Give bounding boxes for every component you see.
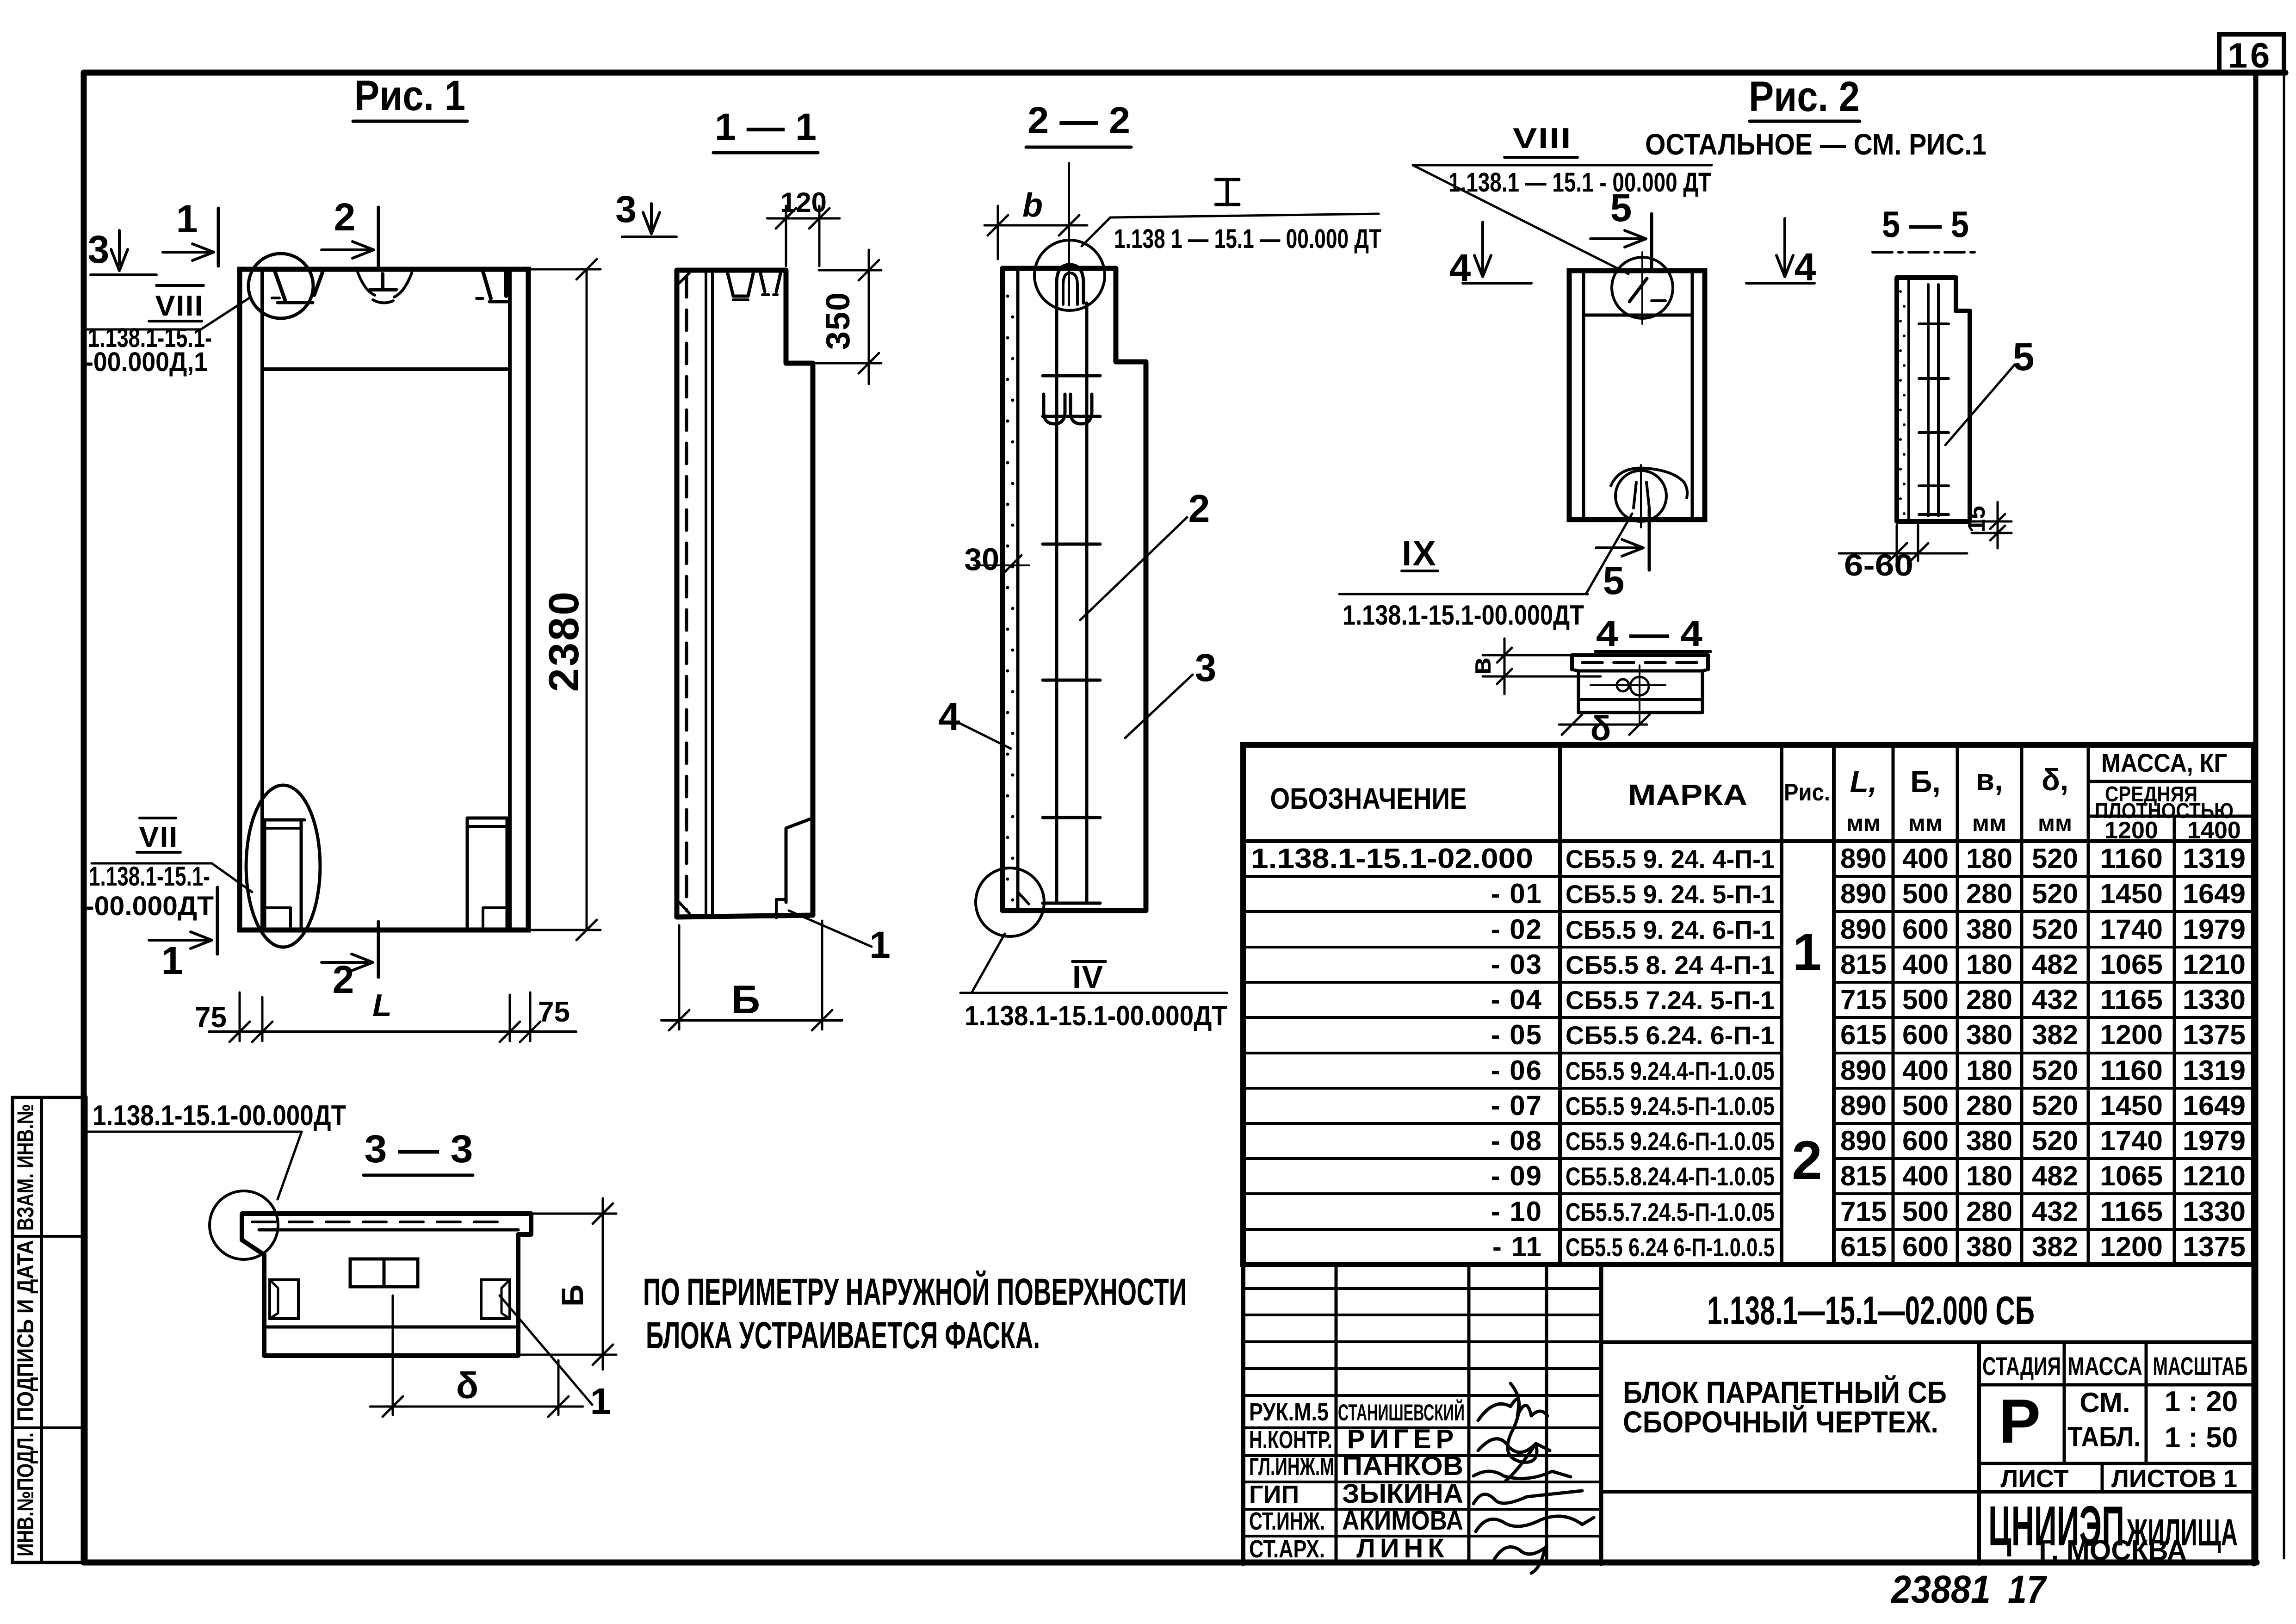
svg-text:1: 1 (176, 197, 198, 241)
Рис.1 bottom-left pocket (263, 820, 266, 929)
svg-text:ЛИСТОВ 1: ЛИСТОВ 1 (2111, 1465, 2237, 1493)
5-5 rebar (1927, 285, 1930, 516)
svg-text:L,: L, (1850, 764, 1877, 799)
Рис.1 main view outline (240, 269, 528, 930)
svg-text:Рис. 1: Рис. 1 (354, 72, 465, 119)
svg-text:520: 520 (2032, 914, 2078, 945)
svg-text:432: 432 (2032, 984, 2078, 1015)
svg-text:3 — 3: 3 — 3 (365, 1127, 473, 1171)
section 4-4 top slab (1572, 655, 1708, 669)
svg-text:1 — 1: 1 — 1 (715, 106, 817, 148)
svg-text:СБОРОЧНЫЙ ЧЕРТЕЖ.: СБОРОЧНЫЙ ЧЕРТЕЖ. (1623, 1404, 1938, 1439)
svg-text:СБ5.5 9.24.6-П-1.0.05: СБ5.5 9.24.6-П-1.0.05 (1566, 1127, 1775, 1156)
leader VII (92, 862, 212, 865)
section 3-3 outline (242, 1214, 531, 1356)
svg-text:350: 350 (820, 291, 857, 350)
svg-text:1450: 1450 (2100, 878, 2163, 909)
svg-text:482: 482 (2032, 1160, 2078, 1191)
1-1 top slots (727, 272, 754, 296)
svg-text:15: 15 (1963, 506, 1990, 533)
2-2 rebar (1055, 303, 1058, 903)
leader VIII (85, 329, 201, 331)
svg-text:432: 432 (2032, 1196, 2078, 1227)
2-2 U-hooks (1044, 394, 1065, 424)
Рис.1 top-right slot (483, 272, 491, 298)
dimension 15 (1972, 521, 2011, 523)
svg-text:1979: 1979 (2183, 914, 2246, 945)
svg-text:ИНВ.№ПОДЛ.: ИНВ.№ПОДЛ. (12, 1432, 38, 1556)
svg-text:- 05: - 05 (1491, 1019, 1542, 1050)
svg-text:- 11: - 11 (1492, 1231, 1542, 1262)
svg-text:17: 17 (2008, 1568, 2047, 1611)
svg-text:600: 600 (1902, 1231, 1949, 1262)
svg-text:1740: 1740 (2100, 1125, 2163, 1156)
dimension 350 (819, 269, 881, 272)
Рис.1 inner vertical left (260, 269, 264, 930)
sheet number box 16 (2219, 34, 2284, 73)
5-5 crossbar y818 (1919, 377, 1949, 380)
svg-text:520: 520 (2032, 1125, 2078, 1156)
svg-text:1065: 1065 (2100, 1160, 2163, 1191)
svg-text:Б,: Б, (1910, 764, 1941, 799)
svg-text:3: 3 (1195, 646, 1217, 689)
2-2 top detail circle (1034, 240, 1105, 310)
Рис.1 top anchor mark (358, 272, 375, 295)
svg-text:6-60: 6-60 (1844, 548, 1913, 582)
svg-text:382: 382 (2032, 1231, 2078, 1262)
svg-text:мм: мм (2038, 810, 2072, 836)
svg-text:1.138.1—15.1—02.000 СБ: 1.138.1—15.1—02.000 СБ (1707, 1289, 2035, 1333)
svg-text:СБ5.5 6.24. 6-П-1: СБ5.5 6.24. 6-П-1 (1566, 1021, 1775, 1050)
svg-text:382: 382 (2032, 1019, 2078, 1050)
signature squiggles (1478, 1399, 1547, 1420)
svg-text:1210: 1210 (2183, 949, 2246, 980)
svg-text:Н.КОНТР.: Н.КОНТР. (1249, 1426, 1332, 1454)
svg-text:1200: 1200 (2100, 1019, 2163, 1050)
svg-text:СТАДИЯ: СТАДИЯ (1982, 1351, 2061, 1381)
svg-text:1319: 1319 (2183, 843, 2246, 874)
svg-text:520: 520 (2032, 1090, 2078, 1121)
5-5 crossbar y700 (1919, 322, 1949, 325)
svg-text:75: 75 (538, 996, 570, 1028)
svg-text:600: 600 (1902, 1125, 1949, 1156)
1-1 inner double line (705, 270, 707, 917)
svg-text:120: 120 (780, 187, 827, 218)
svg-text:1649: 1649 (2183, 878, 2246, 909)
svg-text:Б: Б (555, 1284, 589, 1306)
svg-text:4: 4 (939, 695, 960, 738)
svg-text:400: 400 (1902, 1055, 1949, 1086)
svg-text:- 02: - 02 (1491, 914, 1542, 945)
svg-text:30: 30 (964, 542, 999, 577)
svg-text:мм: мм (1972, 810, 2006, 836)
svg-text:180: 180 (1966, 1055, 2012, 1086)
svg-text:Рис.: Рис. (1784, 779, 1830, 806)
svg-text:180: 180 (1966, 843, 2012, 874)
svg-text:СБ5.5.7.24.5-П-1.0.05: СБ5.5.7.24.5-П-1.0.05 (1566, 1197, 1775, 1227)
svg-text:СБ5.5 8. 24 4-П-1: СБ5.5 8. 24 4-П-1 (1566, 950, 1775, 979)
svg-text:1: 1 (869, 924, 891, 966)
svg-text:2: 2 (333, 958, 354, 1001)
svg-text:520: 520 (2032, 878, 2078, 909)
svg-text:380: 380 (1966, 1231, 2012, 1262)
svg-text:1330: 1330 (2183, 984, 2246, 1015)
svg-text:3: 3 (88, 228, 110, 271)
svg-text:500: 500 (1902, 1196, 1949, 1227)
svg-text:VIII: VIII (1513, 123, 1572, 155)
svg-text:380: 380 (1966, 1125, 2012, 1156)
svg-text:ПАНКОВ: ПАНКОВ (1342, 1451, 1463, 1481)
svg-text:ПОДПИСЬ И ДАТА: ПОДПИСЬ И ДАТА (12, 1240, 38, 1421)
svg-text:- 04: - 04 (1491, 984, 1542, 1015)
svg-text:- 03: - 03 (1491, 949, 1542, 980)
svg-text:БЛОКА УСТРАИВАЕТСЯ ФАСКА.: БЛОКА УСТРАИВАЕТСЯ ФАСКА. (646, 1314, 1040, 1357)
svg-text:ВЗАМ. ИНВ.№: ВЗАМ. ИНВ.№ (12, 1104, 38, 1231)
2-2 rebar crossbar y812 (1043, 374, 1100, 378)
svg-text:890: 890 (1840, 1125, 1887, 1156)
svg-text:VIII: VIII (155, 290, 204, 322)
svg-text:890: 890 (1840, 843, 1887, 874)
2-2 lifting loop (1057, 265, 1083, 303)
svg-text:1.138.1-15.1-02.000: 1.138.1-15.1-02.000 (1251, 843, 1533, 874)
svg-text:мм: мм (1846, 810, 1881, 836)
left margin stamp strip (12, 1097, 86, 1562)
svg-text:400: 400 (1902, 843, 1949, 874)
svg-text:БЛОК ПАРАПЕТНЫЙ СБ: БЛОК ПАРАПЕТНЫЙ СБ (1623, 1375, 1947, 1409)
svg-text:500: 500 (1902, 1090, 1949, 1121)
dimension b (2-2) (997, 206, 999, 259)
svg-text:Рис. 2: Рис. 2 (1749, 73, 1860, 120)
svg-text:1375: 1375 (2183, 1019, 2246, 1050)
5-5 crossbar y1050 (1919, 484, 1949, 487)
svg-text:1400: 1400 (2187, 817, 2241, 844)
svg-text:400: 400 (1902, 1160, 1949, 1191)
svg-text:IX: IX (1402, 534, 1437, 573)
3-3 detail circle (210, 1191, 278, 1259)
svg-text:VII: VII (139, 821, 179, 853)
svg-text:- 07: - 07 (1491, 1090, 1542, 1121)
svg-text:1165: 1165 (2100, 1196, 2163, 1227)
svg-text:890: 890 (1840, 1055, 1887, 1086)
svg-text:СБ5.5 9.24.5-П-1.0.05: СБ5.5 9.24.5-П-1.0.05 (1566, 1091, 1775, 1121)
svg-text:Б: Б (731, 978, 760, 1022)
2-2 rebar crossbar y1470 (1043, 679, 1100, 682)
svg-text:715: 715 (1840, 984, 1887, 1015)
svg-text:СТАНИШЕВСКИЙ: СТАНИШЕВСКИЙ (1338, 1399, 1465, 1426)
svg-text:РУК.М.5: РУК.М.5 (1249, 1398, 1329, 1426)
svg-text:2: 2 (1792, 1130, 1822, 1191)
svg-text:ГЛ.ИНЖ.М: ГЛ.ИНЖ.М (1249, 1453, 1334, 1481)
svg-text:1979: 1979 (2183, 1125, 2246, 1156)
svg-text:1375: 1375 (2183, 1231, 2246, 1262)
svg-text:АКИМОВА: АКИМОВА (1342, 1506, 1463, 1536)
svg-text:δ,: δ, (2042, 762, 2068, 797)
svg-text:Р: Р (1999, 1386, 2041, 1456)
svg-text:815: 815 (1840, 949, 1887, 980)
svg-text:СТ.ИНЖ.: СТ.ИНЖ. (1249, 1507, 1325, 1535)
3-3 middle box (350, 1259, 418, 1287)
svg-text:1.138.1-15.1-00.000ДТ: 1.138.1-15.1-00.000ДТ (93, 1100, 346, 1132)
svg-text:1200: 1200 (2104, 817, 2158, 844)
2-2 wall inner line (1016, 268, 1020, 911)
svg-text:520: 520 (2032, 1055, 2078, 1086)
svg-text:ЛИСТ: ЛИСТ (2000, 1465, 2068, 1493)
svg-text:b: b (1022, 187, 1043, 224)
svg-text:890: 890 (1840, 878, 1887, 909)
svg-text:520: 520 (2032, 843, 2078, 874)
svg-text:IV: IV (1072, 959, 1104, 995)
svg-text:1.138.1-15.1-00.000ДТ: 1.138.1-15.1-00.000ДТ (965, 1000, 1227, 1031)
Рис.1 top-left slot (275, 271, 285, 300)
svg-text:1.138.1-15.1-00.000ДТ: 1.138.1-15.1-00.000ДТ (1343, 600, 1584, 631)
svg-text:мм: мм (1908, 810, 1943, 836)
Рис.1 bottom-right pocket (466, 818, 469, 928)
Рис.2 top circle (1641, 252, 1643, 324)
svg-text:1330: 1330 (2183, 1196, 2246, 1227)
title block signature grid (1241, 1264, 1245, 1564)
svg-text:1165: 1165 (2100, 984, 2163, 1015)
svg-text:380: 380 (1966, 1019, 2012, 1050)
svg-text:- 10: - 10 (1491, 1196, 1542, 1227)
svg-text:280: 280 (1966, 1196, 2012, 1227)
svg-text:-00.000Д,1: -00.000Д,1 (85, 347, 208, 377)
drawing frame border (84, 70, 2285, 76)
svg-text:РИГЕР: РИГЕР (1347, 1424, 1459, 1454)
svg-text:- 06: - 06 (1491, 1055, 1542, 1086)
svg-text:ПО ПЕРИМЕТРУ НАРУЖНОЙ ПОВЕРХНО: ПО ПЕРИМЕТРУ НАРУЖНОЙ ПОВЕРХНОСТИ (643, 1271, 1187, 1313)
svg-text:1: 1 (161, 939, 183, 982)
svg-text:615: 615 (1840, 1231, 1887, 1262)
svg-text:СБ5.5 9. 24. 4-П-1: СБ5.5 9. 24. 4-П-1 (1566, 844, 1775, 874)
svg-text:СБ5.5.8.24.4-П-1.0.05: СБ5.5.8.24.4-П-1.0.05 (1566, 1162, 1775, 1191)
svg-text:МАСШТАБ: МАСШТАБ (2153, 1351, 2248, 1381)
dimension в (4-4) (1483, 654, 1573, 657)
3-3 left insert (270, 1280, 298, 1319)
svg-text:75: 75 (195, 1002, 227, 1034)
Рис.1 detail ellipse VII (246, 785, 320, 947)
svg-text:СБ5.5 9.24.4-П-1.0.05: СБ5.5 9.24.4-П-1.0.05 (1566, 1056, 1775, 1085)
parts table outer border (1243, 745, 2254, 1264)
svg-text:1.138.1 — 15.1 - 00.000 ДТ: 1.138.1 — 15.1 - 00.000 ДТ (1448, 167, 1711, 198)
section 4-4 body (1578, 671, 1702, 713)
svg-text:МАССА, КГ: МАССА, КГ (2101, 748, 2227, 777)
svg-text:СТ.АРХ.: СТ.АРХ. (1249, 1535, 1325, 1563)
svg-text:1: 1 (1793, 923, 1821, 981)
title block main area (1601, 1340, 2254, 1344)
dimension δ (4-4) (1559, 724, 1647, 726)
svg-text:280: 280 (1966, 984, 2012, 1015)
svg-text:1065: 1065 (2100, 949, 2163, 980)
svg-text:500: 500 (1902, 878, 1949, 909)
dimension Б (3-3) (532, 1213, 616, 1215)
svg-text:МАССА: МАССА (2067, 1351, 2142, 1381)
svg-text:СБ5.5 9. 24. 6-П-1: СБ5.5 9. 24. 6-П-1 (1566, 915, 1775, 944)
2-2 rebar crossbar y1767 (1043, 816, 1100, 819)
svg-text:180: 180 (1966, 1160, 2012, 1191)
2-2 wall stipple (1006, 295, 1009, 298)
svg-text:4 — 4: 4 — 4 (1596, 613, 1702, 654)
svg-text:ОБОЗНАЧЕНИЕ: ОБОЗНАЧЕНИЕ (1270, 782, 1467, 815)
svg-text:ЛИНК: ЛИНК (1356, 1533, 1449, 1563)
svg-text:L: L (372, 988, 392, 1023)
2-2 centerline (1068, 163, 1070, 305)
svg-text:1160: 1160 (2100, 843, 2163, 874)
section 5-5 outline (1897, 278, 1970, 521)
svg-text:- 01: - 01 (1491, 878, 1542, 909)
svg-text:280: 280 (1966, 878, 2012, 909)
svg-text:482: 482 (2032, 949, 2078, 980)
Рис.1 detail circle VIII (248, 254, 313, 318)
2-2 rebar crossbar y1176 (1043, 543, 1100, 546)
svg-text:СМ.: СМ. (2079, 1387, 2130, 1418)
svg-text:1160: 1160 (2100, 1055, 2163, 1086)
5-5 crossbar y1112 (1919, 513, 1949, 516)
svg-text:1.138 1 — 15.1 — 00.000 ДТ: 1.138 1 — 15.1 — 00.000 ДТ (1114, 224, 1381, 254)
svg-text:2 — 2: 2 — 2 (1027, 99, 1130, 142)
Рис.2 bottom blob (1611, 468, 1687, 498)
svg-text:δ: δ (1590, 709, 1611, 748)
svg-text:180: 180 (1966, 949, 2012, 980)
svg-text:в,: в, (1976, 762, 2003, 797)
svg-text:5: 5 (1603, 559, 1625, 602)
svg-text:715: 715 (1840, 1196, 1887, 1227)
dimension δ (3-3) (392, 1295, 394, 1415)
svg-text:-00.000ДТ: -00.000ДТ (85, 891, 214, 921)
svg-text:МАРКА: МАРКА (1628, 778, 1747, 812)
svg-text:600: 600 (1902, 1019, 1949, 1050)
svg-text:Г. МОСКВА: Г. МОСКВА (2039, 1535, 2187, 1567)
dimension Б (1-1) (678, 925, 681, 1029)
2-2 rebar crossbar y900 (1043, 415, 1100, 418)
svg-text:400: 400 (1902, 949, 1949, 980)
dimension 2380 (530, 268, 600, 271)
1-1 dashed axis (685, 277, 688, 911)
svg-text:- 08: - 08 (1491, 1125, 1542, 1156)
1-1 corner chamfers (679, 273, 689, 283)
svg-text:в: в (1465, 657, 1497, 675)
svg-text:1 : 50: 1 : 50 (2165, 1422, 2238, 1454)
svg-text:500: 500 (1902, 984, 1949, 1015)
svg-text:23881: 23881 (1890, 1568, 1991, 1611)
2-2 rebar crossbar y1952 (1043, 902, 1100, 905)
svg-text:ОСТАЛЬНОЕ — СМ. РИС.1: ОСТАЛЬНОЕ — СМ. РИС.1 (1645, 128, 1987, 161)
svg-text:1649: 1649 (2183, 1090, 2246, 1121)
svg-text:1319: 1319 (2183, 1055, 2246, 1086)
svg-text:615: 615 (1840, 1019, 1887, 1050)
svg-text:1 : 20: 1 : 20 (2165, 1386, 2238, 1418)
table header lines (2088, 780, 2254, 783)
svg-text:890: 890 (1840, 1090, 1887, 1121)
svg-text:380: 380 (1966, 914, 2012, 945)
svg-text:815: 815 (1840, 1160, 1887, 1191)
Рис.2 block outline (1569, 271, 1705, 520)
detail label I (1216, 178, 1239, 181)
svg-text:ГИП: ГИП (1249, 1481, 1299, 1508)
svg-text:2: 2 (1188, 487, 1210, 530)
svg-text:1: 1 (590, 1381, 611, 1422)
svg-text:16: 16 (2228, 36, 2273, 75)
Рис.1 inner vertical right (508, 269, 512, 930)
svg-text:280: 280 (1966, 1090, 2012, 1121)
Рис.1 inner horizontal (262, 367, 510, 371)
svg-text:СБ5.5 7.24. 5-П-1: СБ5.5 7.24. 5-П-1 (1566, 986, 1775, 1015)
svg-text:1.138.1-15.1-: 1.138.1-15.1- (89, 862, 210, 892)
svg-text:1450: 1450 (2100, 1090, 2163, 1121)
1-1 bottom-right chamfer detail (786, 818, 813, 902)
svg-text:ЗЫКИНА: ЗЫКИНА (1342, 1479, 1463, 1509)
table row lines (1243, 875, 1782, 878)
outer trim line right (2283, 34, 2285, 1558)
leader I (1082, 214, 1379, 246)
svg-text:1740: 1740 (2100, 914, 2163, 945)
svg-text:5: 5 (2013, 335, 2035, 378)
svg-text:СБ5.5 6.24 6-П-1.0.0.5: СБ5.5 6.24 6-П-1.0.0.5 (1566, 1233, 1775, 1262)
bottom dimension 75 L 75 (209, 1030, 576, 1033)
3-3 right insert (481, 1280, 510, 1319)
5-5 crossbar y935 (1919, 431, 1949, 434)
svg-text:5 — 5: 5 — 5 (1882, 204, 1969, 245)
section 1-1 outline (677, 270, 813, 917)
svg-text:1200: 1200 (2100, 1231, 2163, 1262)
dimension 120 (785, 206, 787, 266)
svg-text:- 09: - 09 (1491, 1160, 1542, 1191)
svg-text:600: 600 (1902, 914, 1949, 945)
svg-text:2380: 2380 (540, 590, 588, 692)
dimension 6-60 (1896, 525, 1898, 561)
svg-text:СБ5.5 9. 24. 5-П-1: СБ5.5 9. 24. 5-П-1 (1566, 880, 1775, 909)
5-5 wall stipple (1899, 290, 1902, 293)
svg-text:ТАБЛ.: ТАБЛ. (2067, 1421, 2141, 1452)
2-2 bottom detail circle (976, 868, 1044, 936)
svg-text:1210: 1210 (2183, 1160, 2246, 1191)
4-4 center detail (1590, 684, 1665, 686)
svg-text:5: 5 (1610, 186, 1632, 229)
svg-text:3: 3 (615, 188, 637, 230)
table column lines (1558, 745, 1562, 1264)
svg-text:890: 890 (1840, 914, 1887, 945)
section 2-2 outline (1003, 268, 1146, 911)
svg-text:2: 2 (334, 195, 356, 239)
svg-text:δ: δ (456, 1365, 479, 1406)
